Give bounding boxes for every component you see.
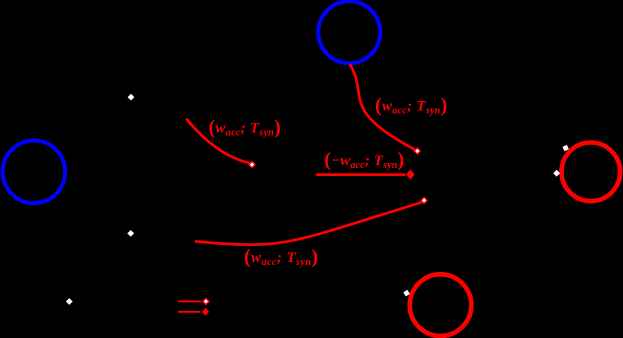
neuron N2 (blue circle, left input) (3, 141, 66, 204)
white diamond arrowhead (on bottom red neuron) (402, 289, 410, 297)
terminal diamond (open) at end of curve B (414, 148, 420, 154)
wire: straight inhibitory arrow (317, 173, 405, 176)
neuron N3 (red circle, right) (562, 143, 621, 202)
legend: inhibitory arrow line (178, 311, 201, 313)
wire: synapse curve B (from top blue neuron) (350, 65, 414, 149)
white diamond arrowhead (on right red neuron, upper) (561, 144, 570, 153)
neuron N4 (red circle, bottom) (410, 274, 472, 336)
white diamond arrowhead (lower left) (66, 298, 73, 305)
white diamond arrowhead (upper left) (128, 94, 135, 101)
neuron N1 (blue circle, top input) (318, 1, 380, 63)
legend: excitatory open diamond (203, 298, 209, 304)
terminal diamond (open) at end of curve A (249, 162, 255, 168)
legend: excitatory arrow line (178, 300, 202, 302)
legend: inhibitory filled diamond (202, 308, 209, 316)
wire: synapse curve C (long bottom red curve) (196, 203, 421, 245)
white diamond arrowhead (mid left) (127, 230, 134, 237)
wire: synapse curve A (upper-left red curve) (187, 120, 249, 164)
white diamond arrowhead (on right red neuron, lower) (553, 170, 560, 177)
terminal diamond (filled) at end of straight arrow (406, 169, 414, 180)
terminal diamond (open) at end of curve C (421, 197, 427, 203)
